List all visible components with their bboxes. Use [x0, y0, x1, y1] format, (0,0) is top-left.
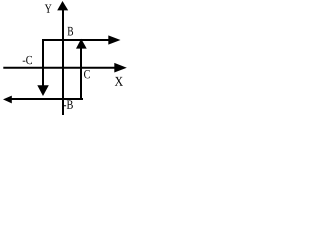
label B — [68, 27, 74, 36]
Y axis — [57, 1, 68, 115]
label Y — [45, 5, 52, 13]
top B line with right arrow — [42, 35, 121, 44]
X axis — [3, 63, 127, 73]
label C — [84, 70, 90, 78]
label -C — [23, 56, 32, 64]
label X — [115, 77, 123, 86]
bottom -B line with left arrow — [3, 96, 83, 104]
left vertical (-C) with down arrow — [37, 39, 49, 96]
label -B — [63, 101, 72, 109]
right vertical (C) with up arrow — [76, 39, 87, 99]
